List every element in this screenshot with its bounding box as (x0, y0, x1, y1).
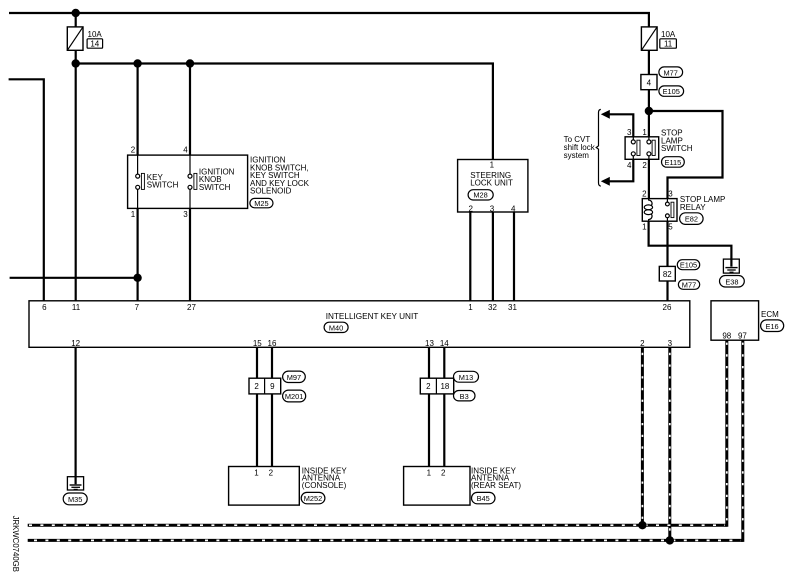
svg-text:M28: M28 (473, 191, 487, 200)
svg-text:1: 1 (254, 469, 259, 478)
wire relay pin 1 to ground E38 (649, 221, 732, 266)
svg-text:9: 9 (270, 382, 275, 391)
svg-text:2: 2 (426, 382, 431, 391)
wire M40 pin 13 to connector M13/B3 (428, 347, 430, 378)
svg-text:SWITCH: SWITCH (661, 144, 693, 153)
svg-text:6: 6 (42, 303, 47, 312)
svg-text:JRKWC0740GB: JRKWC0740GB (11, 516, 20, 572)
svg-text:(CONSOLE): (CONSOLE) (302, 481, 347, 490)
svg-text:97: 97 (738, 332, 747, 341)
svg-text:M97: M97 (287, 373, 301, 382)
svg-text:2: 2 (269, 469, 274, 478)
svg-text:1: 1 (427, 469, 432, 478)
arrow to CVT (lower) (601, 177, 610, 186)
svg-text:system: system (564, 151, 590, 160)
wire M25 pin 1 to M40 pin 7 (137, 208, 139, 300)
svg-text:M35: M35 (68, 495, 82, 504)
svg-text:E82: E82 (685, 215, 698, 224)
node junction top bus / fuse 14 (72, 9, 80, 17)
inside key antenna rear seat B45 (404, 466, 522, 505)
svg-text:INTELLIGENT KEY UNIT: INTELLIGENT KEY UNIT (326, 312, 419, 321)
key switch contact (136, 155, 179, 208)
svg-text:2: 2 (254, 382, 259, 391)
svg-text:1: 1 (131, 210, 136, 219)
svg-text:5: 5 (668, 223, 673, 232)
svg-text:2: 2 (131, 146, 136, 155)
wire second bus to steering lock unit (76, 64, 493, 160)
wire shielded ECM pin 97 to shield bus 2 (741, 340, 744, 542)
svg-text:M40: M40 (329, 323, 343, 332)
wire junction to stop lamp relay pin 3 (649, 111, 723, 199)
svg-text:4: 4 (627, 161, 632, 170)
svg-text:M25: M25 (254, 199, 268, 208)
wire shield bus 1 (28, 524, 727, 527)
svg-text:10A: 10A (661, 30, 676, 39)
svg-text:B45: B45 (477, 494, 490, 503)
fuse 14 (67, 27, 102, 50)
wire M40 pin 15 to connector M97/M201 (256, 347, 258, 378)
svg-text:12: 12 (71, 339, 80, 348)
intelligent key unit M40 box (29, 301, 690, 348)
wire fuse14 to second bus to pin 11 (75, 13, 77, 27)
wire shielded M40 pin 2 to shield bus 1 (641, 347, 644, 525)
connector 82 (E105/M77) (659, 260, 699, 290)
svg-text:10A: 10A (88, 30, 103, 39)
svg-text:32: 32 (488, 303, 497, 312)
svg-text:18: 18 (440, 382, 449, 391)
svg-text:15: 15 (253, 339, 262, 348)
ground E38 (720, 259, 745, 287)
wire bus2 to M25 pin 4 (189, 64, 191, 156)
svg-text:1: 1 (468, 303, 473, 312)
connector 4 (M77/E105) (641, 67, 684, 96)
svg-text:M201: M201 (285, 392, 304, 401)
connector M97/M201 pins 2/9 (249, 371, 306, 402)
node junction pin3/shield bus 2 (666, 536, 674, 544)
wire M28 pin 3 to M40 pin 32 (492, 212, 494, 301)
svg-text:27: 27 (187, 303, 196, 312)
svg-text:4: 4 (511, 204, 516, 213)
svg-text:M77: M77 (682, 281, 696, 290)
svg-text:LOCK UNIT: LOCK UNIT (470, 179, 513, 188)
ground M35 (63, 477, 87, 505)
svg-text:11: 11 (664, 39, 673, 48)
wire M28 pin 2 to M40 pin 1 (469, 212, 471, 301)
svg-text:E38: E38 (725, 277, 738, 286)
wire left entry to M40 pin 6 (9, 79, 44, 300)
svg-text:13: 13 (425, 339, 434, 348)
svg-text:ECM: ECM (761, 310, 779, 319)
wire fuse 11 to connector 4 (648, 50, 650, 74)
svg-text:E105: E105 (663, 87, 680, 96)
svg-text:11: 11 (72, 303, 81, 312)
svg-text:RELAY: RELAY (680, 203, 706, 212)
svg-text:1: 1 (642, 223, 647, 232)
svg-text:98: 98 (722, 332, 731, 341)
svg-text:7: 7 (135, 303, 140, 312)
svg-text:SWITCH: SWITCH (147, 181, 179, 190)
wire top power bus (9, 13, 649, 27)
svg-text:M13: M13 (459, 373, 473, 382)
switch assembly M25 box (128, 155, 248, 208)
svg-text:2: 2 (468, 204, 473, 213)
svg-text:14: 14 (90, 39, 99, 48)
node junction bus2/fuse14 (72, 59, 80, 67)
svg-text:4: 4 (183, 146, 188, 155)
node junction pin2/shield bus 1 (638, 521, 646, 529)
connector M13/B3 pins 2/18 (420, 371, 478, 401)
arrow to CVT (upper) (601, 110, 610, 119)
wire M40 pin 14 to connector M13/B3 (443, 347, 445, 378)
fuse 11 (641, 27, 676, 50)
wire bus2 to M25 pin 2 (137, 64, 139, 156)
svg-text:(REAR SEAT): (REAR SEAT) (471, 481, 521, 490)
label M25 ignition knob switch key switch and key lock solenoid (250, 156, 310, 208)
wire M25 pin 3 to M40 pin 27 (189, 208, 191, 300)
svg-text:3: 3 (668, 339, 673, 348)
steering lock unit M28 box (458, 160, 528, 214)
ECM E16 box (711, 301, 784, 341)
svg-text:3: 3 (183, 210, 188, 219)
node junction pin7 wire (133, 274, 141, 282)
wire connector to antenna console pin 2 (271, 394, 273, 467)
wire relay pin 5 to connector 82 (666, 221, 668, 266)
inside key antenna console M252 (229, 466, 348, 505)
node junction bus2/ignition knob switch (186, 59, 194, 67)
node junction bus2/key switch (133, 59, 141, 67)
wire stop lamp switch pin 2 to relay coil (648, 159, 650, 198)
label to CVT shift lock system (564, 135, 596, 160)
svg-text:14: 14 (440, 339, 449, 348)
svg-text:B3: B3 (460, 392, 469, 401)
svg-text:2: 2 (642, 190, 647, 199)
wire M40 pin 12 to ground M35 (74, 347, 76, 484)
wire stop lamp switch pin 3 to CVT arrow (609, 114, 633, 137)
svg-text:E16: E16 (766, 322, 779, 331)
svg-text:SOLENOID: SOLENOID (250, 187, 292, 196)
bracket CVT (596, 109, 601, 186)
svg-text:M77: M77 (664, 68, 678, 77)
wire M40 pin 16 to connector M97/M201 (271, 347, 273, 378)
svg-text:16: 16 (268, 339, 277, 348)
svg-text:31: 31 (508, 303, 517, 312)
wire M28 pin 4 to M40 pin 31 (513, 212, 515, 301)
wire connector to antenna rear pin 1 (428, 394, 430, 467)
svg-text:3: 3 (627, 128, 632, 137)
svg-text:3: 3 (668, 190, 673, 199)
svg-text:SWITCH: SWITCH (199, 183, 231, 192)
svg-text:2: 2 (642, 161, 647, 170)
ignition knob switch contact (188, 155, 235, 208)
wire connector to antenna rear pin 2 (443, 394, 445, 467)
stop lamp switch E115 (625, 128, 693, 170)
wire shield bus 2 (28, 539, 743, 542)
svg-text:2: 2 (441, 469, 446, 478)
stop lamp relay E82 (642, 190, 725, 232)
wire left entry to M25 pin1/M40 pin7 net (10, 277, 138, 279)
wire connector 82 to M40 pin 26 (666, 281, 668, 301)
svg-text:2: 2 (640, 339, 645, 348)
svg-text:E105: E105 (680, 261, 697, 270)
svg-text:1: 1 (642, 128, 647, 137)
svg-text:E115: E115 (665, 158, 682, 167)
svg-text:1: 1 (490, 161, 495, 170)
svg-text:82: 82 (663, 270, 672, 279)
wire connector to antenna console pin 1 (256, 394, 258, 467)
svg-text:3: 3 (490, 204, 495, 213)
wire shielded ECM pin 98 to shield bus 1 (725, 340, 728, 527)
wire shielded M40 pin 3 to shield bus 2 (668, 347, 671, 540)
svg-text:M252: M252 (304, 494, 323, 503)
node junction stop lamp switch feed (645, 107, 653, 115)
svg-text:26: 26 (663, 303, 672, 312)
svg-text:4: 4 (647, 78, 652, 87)
wire connector 4 to stop lamp switch pin 1 (648, 90, 650, 137)
wire stop lamp switch pin 4 to CVT arrow (609, 159, 633, 181)
